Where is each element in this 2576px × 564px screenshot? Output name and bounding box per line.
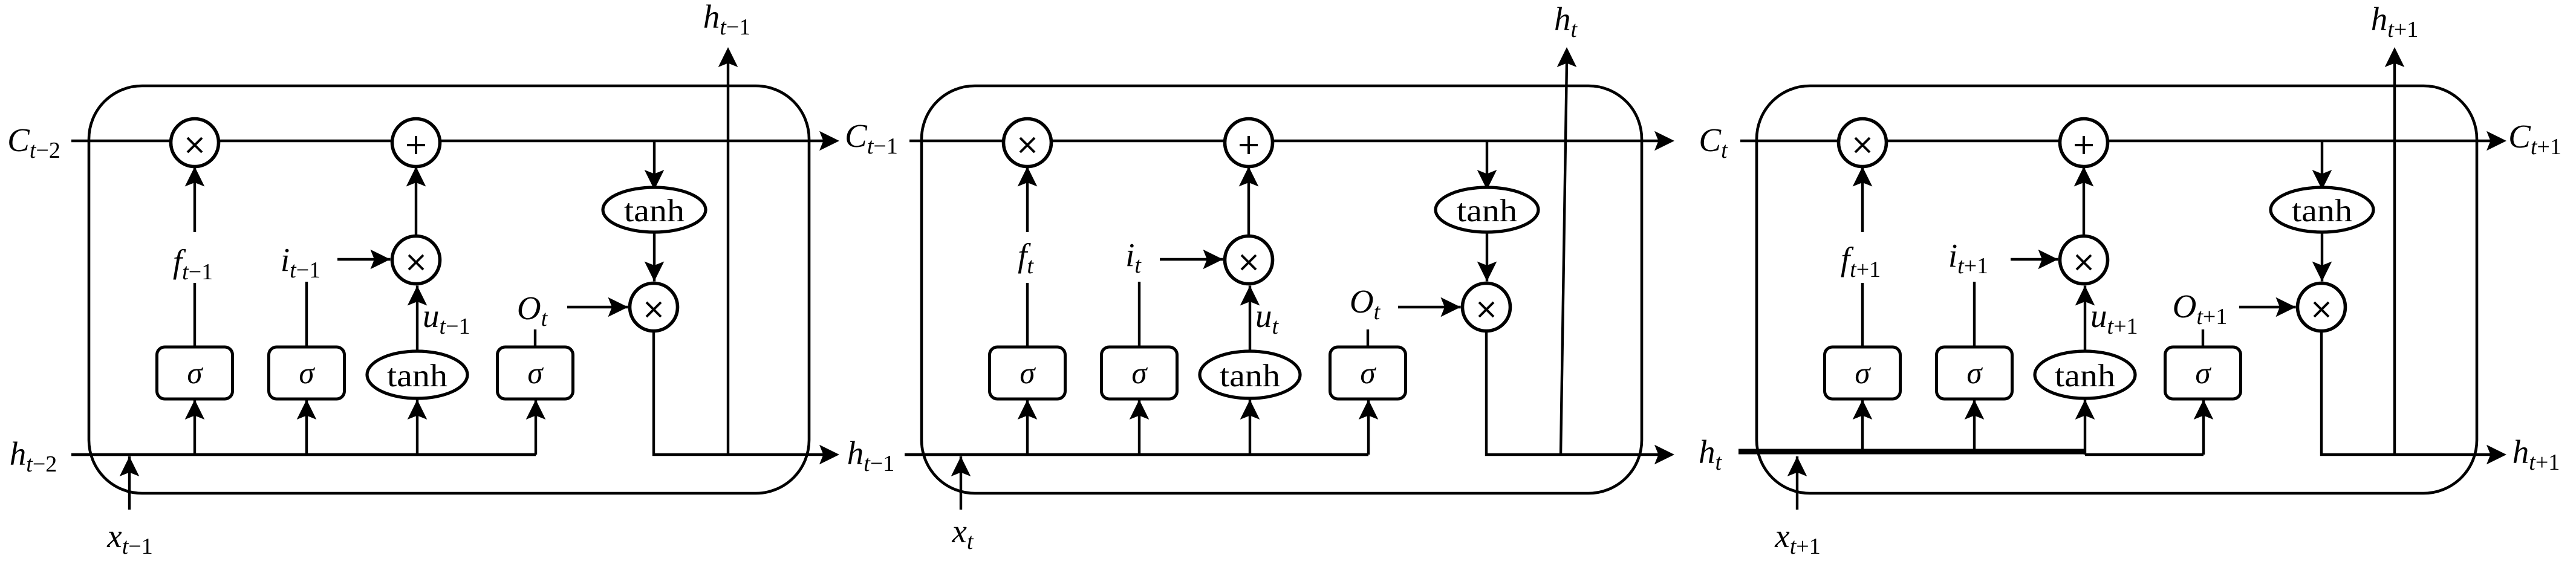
wire h input thick cell 3	[1738, 449, 2085, 455]
wire f gate cell 2	[1018, 167, 1038, 348]
add node cell 1	[392, 119, 440, 167]
svg-text:tanh: tanh	[2055, 358, 2115, 394]
tanh activation top cell 1	[603, 187, 706, 232]
wire x2 to plus cell 2	[1239, 167, 1259, 236]
tanh activation top cell 2	[1436, 187, 1538, 232]
gate input arrow sigma4 cell 3	[2194, 400, 2214, 455]
label h t-2 left	[10, 435, 57, 477]
label f cell 3	[1835, 232, 1896, 283]
label i cell 1	[281, 241, 320, 283]
svg-text:σ: σ	[1966, 357, 1983, 391]
wire C line cell 1	[71, 140, 825, 142]
svg-text:σ: σ	[299, 357, 315, 391]
label u cell 3	[2090, 297, 2138, 339]
wire i arrow cell 2	[1160, 250, 1223, 270]
svg-text:tanh: tanh	[1220, 358, 1280, 394]
sigma gate f cell 1	[157, 347, 233, 399]
gate input arrow x=690 cell 1	[408, 400, 428, 455]
sigma gate f cell 2	[990, 347, 1065, 399]
multiply node input cell 2	[1225, 236, 1273, 284]
label h top cell 2	[1554, 1, 1578, 42]
gate input arrow x=322 cell 2	[1018, 400, 1038, 455]
multiply node forget cell 3	[1839, 119, 1887, 167]
gate input arrow x=690 cell 2	[1240, 400, 1260, 455]
gate input arrow x=507 cell 1	[297, 400, 317, 455]
wire O stem cell 3	[2202, 329, 2204, 347]
svg-text:σ: σ	[2195, 357, 2211, 391]
label i cell 2	[1125, 236, 1142, 278]
wire O arrow cell 2	[1398, 297, 1461, 317]
add node cell 2	[1225, 119, 1273, 167]
arrow h out cell 1	[819, 445, 839, 465]
wire u arrow cell 3	[2075, 286, 2095, 352]
svg-text:tanh: tanh	[1457, 193, 1517, 229]
multiply node forget cell 2	[1004, 119, 1052, 167]
sigma gate o cell 3	[2165, 347, 2241, 399]
tanh gate cell 1	[367, 351, 467, 398]
wire x2 to plus cell 1	[406, 167, 426, 236]
wire h output cell 2	[1486, 331, 1660, 455]
sigma gate i cell 1	[269, 347, 345, 399]
svg-text:σ: σ	[1360, 357, 1376, 391]
wire C to tanh cell 1	[645, 141, 665, 190]
wire f gate cell 1	[185, 167, 205, 348]
wire i stem cell 1	[305, 282, 308, 347]
wire h input thin cell 3	[2085, 453, 2204, 456]
wire i arrow cell 3	[2011, 250, 2058, 270]
wire tanh to x3 cell 3	[2312, 232, 2332, 282]
label i cell 3	[1948, 237, 1988, 279]
sigma gate i cell 2	[1102, 347, 1177, 399]
gate input arrow x=322 cell 1	[185, 400, 205, 455]
wire C to tanh cell 2	[1477, 141, 1497, 190]
label f cell 1	[167, 232, 229, 285]
add node cell 3	[2060, 119, 2108, 167]
arrow h out cell 2	[1654, 445, 1674, 465]
label C t-2 left	[7, 122, 60, 163]
sigma gate o cell 2	[1330, 347, 1406, 399]
x input arrow cell 2	[951, 456, 971, 510]
sigma gate o cell 1	[498, 347, 573, 399]
svg-text:tanh: tanh	[624, 193, 685, 229]
wire h input cell 1	[71, 453, 536, 456]
wire x2 to plus cell 3	[2074, 167, 2094, 236]
arrow C out cell 3	[2487, 131, 2506, 151]
wire h output cell 1	[654, 331, 825, 455]
label O cell 2	[1350, 283, 1381, 325]
tanh gate cell 3	[2035, 351, 2135, 398]
wire i arrow cell 1	[337, 250, 391, 270]
wire O arrow cell 1	[567, 297, 628, 317]
label O cell 3	[2173, 288, 2228, 329]
wire h up cell 3	[2393, 62, 2396, 455]
label h t mid	[1699, 433, 1723, 475]
label x input cell 1	[106, 517, 152, 559]
label h t+1 right	[2513, 433, 2560, 475]
wire h up cell 1	[727, 62, 729, 455]
wire f gate cell 3	[1853, 167, 1873, 348]
gate input arrow sigma4 cell 2	[1359, 400, 1379, 455]
arrow C out cell 2	[1654, 131, 1674, 151]
multiply node output cell 1	[630, 284, 678, 331]
wire tanh to x3 cell 1	[645, 232, 665, 282]
multiply node input cell 3	[2060, 236, 2108, 284]
gate input arrow sigma4 cell 1	[526, 400, 546, 455]
x input arrow cell 3	[1787, 456, 1807, 510]
wire u arrow cell 1	[408, 286, 428, 352]
arrow C out cell 1	[819, 131, 839, 151]
gate input arrow x=507 cell 2	[1130, 400, 1150, 455]
gate input arrow x=507 cell 3	[1965, 400, 1985, 452]
gate input arrow x=322 cell 3	[1853, 400, 1873, 452]
label C t+1 right	[2508, 118, 2561, 160]
wire O stem cell 1	[534, 329, 536, 347]
tanh activation top cell 3	[2271, 187, 2373, 232]
wire C line cell 2	[909, 140, 1660, 142]
arrow h top cell 2	[1557, 47, 1577, 67]
svg-text:tanh: tanh	[2292, 193, 2352, 229]
wire i stem cell 2	[1138, 282, 1140, 347]
wire h input cell 2	[905, 453, 1368, 456]
gate input arrow x=690 cell 3	[2075, 400, 2095, 455]
arrow h out cell 3	[2487, 445, 2506, 465]
LSTM cell 3 box	[1757, 86, 2477, 493]
label x input cell 3	[1774, 517, 1820, 559]
label h t-1 mid	[847, 435, 895, 476]
wire h up cell 2	[1561, 62, 1567, 455]
wire u arrow cell 2	[1240, 286, 1260, 352]
svg-text:σ: σ	[527, 357, 544, 391]
wire h output cell 3	[2321, 331, 2492, 455]
svg-text:tanh: tanh	[387, 358, 447, 394]
label O cell 1	[517, 290, 548, 331]
multiply node output cell 3	[2298, 284, 2346, 331]
LSTM cell 2 box	[922, 86, 1642, 493]
label h top cell 3	[2371, 1, 2419, 42]
LSTM cell 1 box	[89, 86, 809, 493]
arrow h top cell 3	[2385, 47, 2405, 67]
svg-text:σ: σ	[1020, 357, 1036, 391]
wire tanh to x3 cell 2	[1477, 232, 1497, 282]
wire C to tanh cell 3	[2312, 141, 2332, 190]
label C t mid	[1699, 122, 1728, 163]
wire i stem cell 3	[1973, 282, 1976, 347]
svg-text:σ: σ	[1855, 357, 1871, 391]
tanh gate cell 2	[1200, 351, 1300, 398]
wire O stem cell 2	[1367, 329, 1369, 347]
svg-text:σ: σ	[1131, 357, 1148, 391]
sigma gate i cell 3	[1937, 347, 2012, 399]
multiply node input cell 1	[392, 236, 440, 284]
label f cell 2	[1000, 232, 1061, 283]
x input arrow cell 1	[120, 456, 140, 510]
label x input cell 2	[952, 513, 974, 554]
wire C line cell 3	[1740, 140, 2492, 142]
svg-text:σ: σ	[187, 357, 203, 391]
multiply node forget cell 1	[171, 119, 219, 167]
arrow h top cell 1	[718, 47, 738, 67]
sigma gate f cell 3	[1825, 347, 1901, 399]
wire O arrow cell 3	[2239, 297, 2296, 317]
label u cell 1	[423, 297, 470, 339]
label C t-1 mid	[845, 117, 898, 159]
multiply node output cell 2	[1463, 284, 1511, 331]
label h top cell 1	[703, 0, 751, 40]
label u cell 2	[1255, 297, 1280, 339]
